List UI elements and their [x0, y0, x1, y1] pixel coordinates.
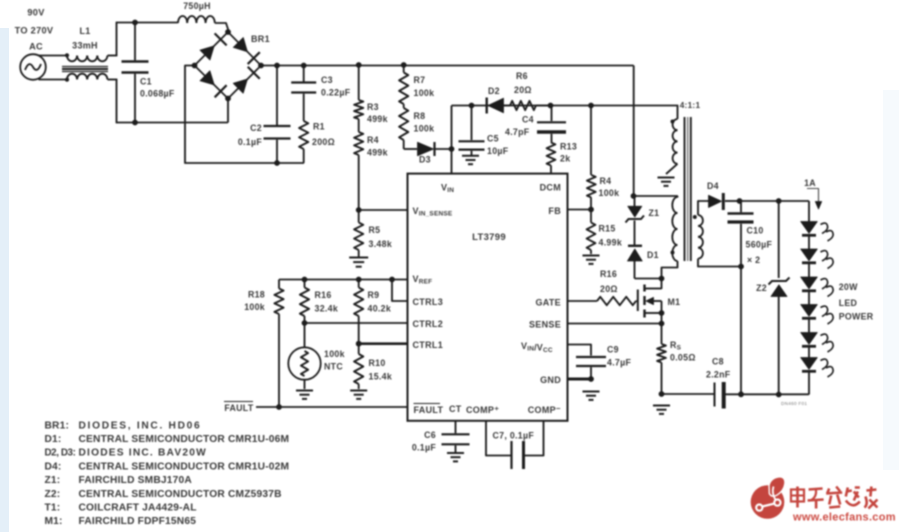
resistor R7 100k — [399, 65, 434, 104]
wire VIN top run — [452, 105, 679, 107]
resistor R4 499k — [354, 119, 388, 210]
node C2 rail — [274, 63, 280, 69]
svg-text:C5: C5 — [487, 134, 499, 144]
svg-text:R15: R15 — [599, 224, 616, 234]
resistor RS 0.05ohm — [657, 340, 696, 394]
inductor 750uH — [178, 1, 215, 23]
svg-text:T1:: T1: — [45, 503, 61, 514]
pin FB label — [548, 206, 561, 216]
svg-text:BR1:: BR1: — [45, 420, 70, 431]
svg-text:0.1µF: 0.1µF — [238, 137, 262, 147]
svg-text:C8: C8 — [712, 357, 724, 367]
svg-text:100k: 100k — [244, 302, 265, 312]
svg-text:DIODES, INC. HD06: DIODES, INC. HD06 — [79, 420, 202, 431]
wire CTRL2 — [305, 322, 408, 324]
svg-text:0.068µF: 0.068µF — [140, 89, 175, 99]
resistor R6 20ohm — [504, 71, 551, 110]
node R9 top — [356, 277, 362, 283]
node CTRL1 — [356, 341, 362, 347]
pin VIN label — [441, 183, 454, 195]
bridge rectifier BR1 — [192, 29, 270, 101]
svg-text:D1: D1 — [647, 250, 659, 260]
svg-text:Z2: Z2 — [756, 283, 767, 293]
svg-text:R16: R16 — [600, 269, 617, 279]
svg-text:2k: 2k — [560, 154, 570, 164]
svg-text:100k: 100k — [324, 349, 345, 359]
node C4 — [548, 103, 554, 109]
capacitor C3 0.22uF — [291, 66, 350, 122]
ground NTC — [296, 391, 313, 399]
resistor R8 100k — [399, 104, 434, 149]
node R16b top — [302, 277, 308, 283]
wire GATE — [568, 300, 598, 302]
capacitor C8 2.2nF — [706, 357, 731, 409]
svg-text:200Ω: 200Ω — [312, 137, 335, 147]
transformer T1 aux winding — [666, 101, 700, 174]
svg-text:560µF: 560µF — [746, 240, 773, 250]
wire D1 to drain — [635, 278, 662, 280]
svg-text:R4: R4 — [367, 135, 379, 145]
wire C10 bottom to rail — [740, 267, 742, 395]
svg-text:CENTRAL SEMICONDUCTOR CMR1U-02: CENTRAL SEMICONDUCTOR CMR1U-02M — [79, 461, 290, 472]
resistor R16 20ohm gate — [597, 269, 636, 305]
annotation DN460 figure — [781, 401, 807, 406]
node C5 — [469, 103, 475, 109]
svg-text:D4:: D4: — [45, 461, 62, 472]
wire CTRL1 — [359, 342, 408, 345]
node drain — [659, 276, 665, 282]
wire SENSE — [568, 323, 662, 325]
svg-text:CT: CT — [449, 404, 462, 414]
zener Z2 — [756, 201, 789, 395]
node R4b — [588, 103, 594, 109]
wire VIN_SENSE — [359, 209, 408, 211]
pin VREF label — [413, 274, 433, 286]
svg-text:R18: R18 — [248, 290, 265, 300]
svg-text:C2: C2 — [250, 123, 262, 133]
svg-text:FB: FB — [548, 206, 561, 216]
svg-text:× 2: × 2 — [747, 255, 760, 265]
node R7 rail — [401, 62, 407, 68]
node CTRL2 — [302, 320, 308, 326]
node C1 top — [132, 20, 138, 26]
svg-text:90V: 90V — [27, 8, 45, 18]
svg-text:CENTRAL SEMICONDUCTOR CMR1U-06: CENTRAL SEMICONDUCTOR CMR1U-06M — [79, 434, 290, 445]
node secondary bottom — [738, 264, 744, 270]
ground aux winding — [658, 178, 675, 186]
pin CT label — [449, 404, 462, 414]
svg-text:100k: 100k — [414, 88, 435, 98]
svg-text:CTRL3: CTRL3 — [413, 297, 444, 307]
svg-text:LT3799: LT3799 — [472, 232, 506, 243]
svg-text:20W: 20W — [839, 282, 858, 292]
node C2 bottom — [274, 160, 280, 166]
svg-text:M1: M1 — [668, 297, 681, 307]
svg-text:D4: D4 — [707, 181, 719, 191]
svg-text:SENSE: SENSE — [529, 320, 561, 330]
wire AC bottom — [39, 79, 68, 81]
pin CTRL1 label — [413, 340, 444, 350]
svg-text:C1: C1 — [140, 77, 152, 87]
svg-text:R10: R10 — [369, 358, 386, 368]
transformer T1 secondary winding — [693, 201, 741, 267]
ground R10 — [350, 391, 367, 399]
svg-text:32.4k: 32.4k — [315, 304, 339, 314]
svg-text:LED: LED — [839, 298, 858, 308]
svg-text:Z1: Z1 — [649, 208, 660, 218]
pin CTRL3 label — [413, 297, 444, 307]
svg-text:L1: L1 — [79, 26, 90, 36]
wire rail to Z1 node — [633, 66, 635, 197]
wire bridge left to DC-minus — [185, 66, 304, 164]
left edge blue strip — [0, 28, 9, 532]
svg-text:33mH: 33mH — [72, 41, 98, 51]
label 20W LED POWER — [839, 282, 874, 322]
svg-text:100k: 100k — [414, 124, 435, 134]
pin FAULT label — [414, 404, 444, 416]
svg-text:C6: C6 — [424, 430, 436, 440]
svg-text:R9: R9 — [368, 290, 380, 300]
svg-text:40.2k: 40.2k — [368, 304, 392, 314]
svg-text:R1: R1 — [313, 122, 325, 132]
node C8 right — [738, 391, 744, 397]
resistor R10 15.4k — [354, 344, 392, 389]
svg-text:FAULT: FAULT — [224, 403, 254, 413]
svg-text:C7, 0.1µF: C7, 0.1µF — [493, 431, 535, 441]
svg-text:FAIRCHILD SMBJ170A: FAIRCHILD SMBJ170A — [79, 475, 193, 486]
node CTRL3 — [389, 277, 395, 283]
wire VREF run — [279, 279, 408, 281]
node Z2 top — [776, 198, 782, 204]
node VIN_SENSE — [356, 207, 362, 213]
diode D1 — [628, 221, 659, 279]
pin VINTVCC label — [521, 341, 553, 354]
diode D3 — [418, 142, 452, 165]
resistor R18 100k — [244, 280, 283, 408]
svg-text:C4: C4 — [522, 115, 534, 125]
pin GND label — [540, 375, 561, 385]
svg-text:DN460 F01: DN460 F01 — [781, 401, 807, 406]
svg-text:TO 270V: TO 270V — [15, 26, 54, 36]
node FB — [588, 207, 594, 213]
svg-text:R6: R6 — [516, 71, 528, 81]
pin COMP+ label — [466, 405, 499, 415]
svg-text:4.7µF: 4.7µF — [607, 358, 631, 368]
annotation 1A arrow — [804, 178, 822, 209]
resistor R3 499k — [354, 65, 388, 124]
resistor R1 200ohm — [299, 121, 335, 163]
svg-text:CTRL1: CTRL1 — [413, 340, 444, 350]
wire bottom output rail — [662, 393, 810, 395]
svg-text:FAULT: FAULT — [414, 405, 444, 415]
svg-text:CTRL2: CTRL2 — [413, 319, 444, 329]
svg-text:D3: D3 — [419, 155, 431, 165]
node C1 bottom — [132, 120, 138, 126]
zener Z1 — [626, 196, 660, 223]
wire output top — [740, 200, 810, 202]
AC source 90V-270V — [15, 8, 54, 80]
svg-text:RS: RS — [670, 340, 682, 352]
resistor R15 4.99k — [587, 210, 622, 255]
svg-text:R7: R7 — [414, 75, 426, 85]
right edge faint strip — [883, 90, 899, 470]
ground R15 — [583, 256, 600, 264]
transistor M1 FDPF15N65 — [636, 279, 680, 345]
svg-text:2.2nF: 2.2nF — [706, 370, 731, 380]
wire 750uH to bridge top — [215, 23, 229, 30]
svg-text:R4: R4 — [600, 176, 612, 186]
svg-text:D1:: D1: — [45, 434, 62, 445]
svg-text:www.elecfans.com: www.elecfans.com — [792, 512, 896, 524]
svg-text:Z2:: Z2: — [45, 489, 61, 500]
main DC rail — [261, 65, 634, 67]
wire VIN vertical — [451, 106, 453, 174]
diode D4 — [707, 181, 740, 210]
resistor R5 3.48k — [354, 210, 392, 257]
svg-text:CENTRAL SEMICONDUCTOR CMZ5937B: CENTRAL SEMICONDUCTOR CMZ5937B — [79, 489, 282, 500]
svg-text:D2, D3:: D2, D3: — [45, 448, 76, 459]
svg-text:C3: C3 — [321, 75, 333, 85]
wire Z1 node to primary — [634, 196, 678, 198]
svg-text:DCM: DCM — [540, 183, 561, 193]
node Z1 — [631, 193, 637, 199]
svg-text:R8: R8 — [414, 111, 426, 121]
svg-text:499k: 499k — [367, 148, 388, 158]
svg-text:COMP⁻: COMP⁻ — [528, 405, 561, 415]
wire FAULT — [224, 402, 408, 414]
svg-text:0.05Ω: 0.05Ω — [670, 353, 696, 363]
BOM parts list — [45, 420, 290, 527]
resistor R13 2k — [547, 142, 577, 174]
watermark elecfans logo — [751, 477, 896, 524]
resistor R16 32.4k — [300, 280, 338, 324]
svg-text:4:1:1: 4:1:1 — [680, 101, 701, 110]
svg-text:750µH: 750µH — [183, 1, 211, 11]
svg-text:R16: R16 — [315, 290, 332, 300]
svg-text:100k: 100k — [599, 188, 620, 198]
svg-text:COMP⁺: COMP⁺ — [466, 405, 499, 415]
svg-text:D2: D2 — [488, 86, 500, 96]
LED string D5-D10 — [801, 201, 833, 395]
wire top rail to 750uH — [135, 22, 178, 24]
wire AC top — [39, 55, 68, 57]
pin VIN_SENSE label — [413, 206, 453, 218]
pin DCM label — [540, 183, 561, 193]
ground C5 — [462, 156, 479, 164]
capacitor C10 560uF x2 — [728, 201, 773, 267]
pin GATE label — [535, 298, 561, 308]
pin SENSE label — [529, 320, 561, 330]
svg-text:AC: AC — [29, 42, 43, 52]
wire GND pin — [568, 378, 592, 381]
ground RS — [653, 406, 670, 414]
node C3 rail — [301, 63, 307, 69]
capacitor C7 0.1uF — [486, 421, 544, 469]
inductor L1 33mH common-mode choke — [62, 26, 108, 82]
svg-text:4.7pF: 4.7pF — [505, 127, 530, 137]
svg-text:20Ω: 20Ω — [600, 284, 618, 294]
capacitor C6 0.1uF — [412, 421, 470, 453]
wire choke to C1 node top — [108, 22, 136, 56]
node R3 rail — [356, 62, 362, 68]
resistor R9 40.2k — [354, 280, 391, 344]
ground IC GND — [583, 392, 600, 400]
pin COMP- label — [528, 405, 561, 415]
capacitor C2 0.1uF — [238, 66, 291, 164]
node RS bottom — [659, 391, 665, 397]
op-amp U1 LT3799 body — [408, 174, 568, 421]
wire CTRL3 — [392, 280, 408, 302]
capacitor C9 4.7uF — [568, 345, 632, 380]
ground R5 — [349, 258, 368, 267]
wire choke to bottom rail — [108, 79, 229, 123]
svg-text:4.99k: 4.99k — [599, 238, 623, 248]
diode D2 — [487, 86, 504, 114]
svg-text:DIODES INC. BAV20W: DIODES INC. BAV20W — [79, 448, 207, 459]
svg-text:0.1µF: 0.1µF — [412, 443, 436, 453]
capacitor C4 4.7pF — [505, 106, 566, 143]
svg-text:C9: C9 — [607, 345, 619, 355]
svg-text:BR1: BR1 — [251, 34, 270, 44]
svg-text:10µF: 10µF — [487, 146, 509, 156]
svg-text:R13: R13 — [560, 142, 577, 152]
node GND — [588, 376, 594, 382]
node D3 VIN — [449, 146, 455, 152]
svg-text:M1:: M1: — [45, 516, 63, 527]
thermistor NTC 100k — [288, 323, 344, 389]
svg-text:15.4k: 15.4k — [369, 372, 393, 382]
node FAULT R18 — [276, 404, 282, 410]
svg-text:COILCRAFT JA4429-AL: COILCRAFT JA4429-AL — [79, 503, 197, 514]
svg-text:499k: 499k — [367, 114, 388, 124]
wire FB — [568, 209, 592, 211]
transformer T1 core — [685, 117, 691, 261]
svg-text:C10: C10 — [747, 226, 764, 236]
svg-text:GATE: GATE — [535, 298, 561, 308]
ground C6 — [447, 453, 464, 461]
svg-text:0.22µF: 0.22µF — [321, 88, 351, 98]
svg-text:R5: R5 — [369, 225, 381, 235]
svg-text:R3: R3 — [367, 102, 379, 112]
svg-text:Z1:: Z1: — [45, 475, 61, 486]
wire bridge bottom stub — [227, 99, 229, 123]
pin CTRL2 label — [413, 319, 444, 329]
svg-text:NTC: NTC — [324, 362, 343, 372]
node SENSE — [659, 321, 665, 327]
svg-text:POWER: POWER — [839, 312, 874, 322]
node Z2 bottom — [776, 392, 782, 398]
svg-text:1A: 1A — [804, 178, 816, 188]
node D4 out — [737, 198, 743, 204]
svg-text:3.48k: 3.48k — [369, 239, 393, 249]
svg-text:20Ω: 20Ω — [514, 85, 532, 95]
svg-text:GND: GND — [540, 375, 561, 385]
transformer T1 primary winding — [662, 197, 678, 279]
svg-text:FAIRCHILD FDPF15N65: FAIRCHILD FDPF15N65 — [79, 516, 197, 527]
capacitor C5 10uF — [459, 106, 509, 157]
capacitor C1 0.068uF — [122, 23, 175, 123]
resistor R4 100k (FB) — [587, 106, 619, 210]
